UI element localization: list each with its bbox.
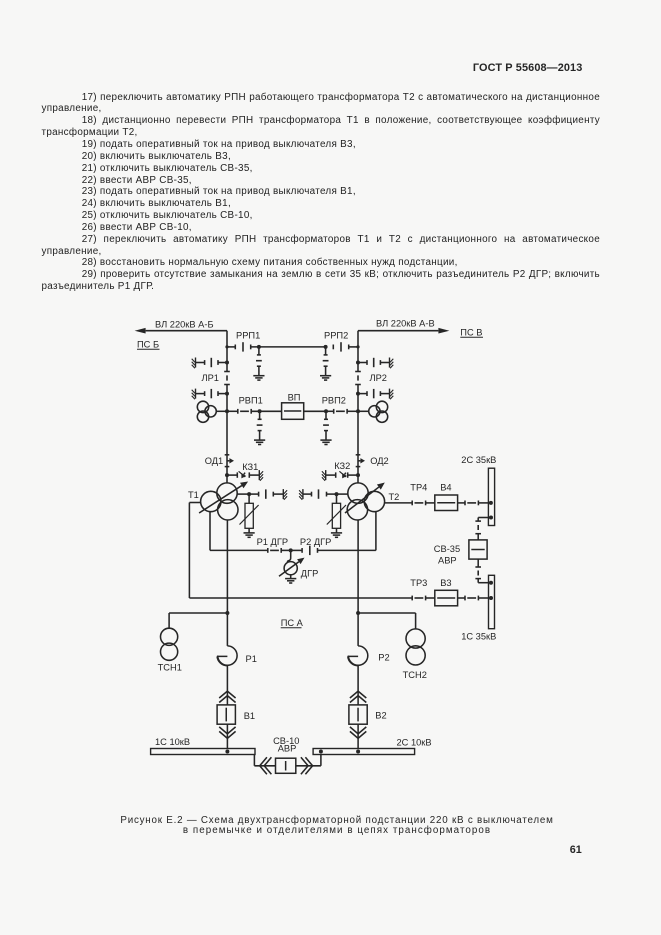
svg-text:ЛР1: ЛР1 — [202, 373, 219, 383]
label 1S 35kV — [461, 632, 496, 642]
label T1 — [188, 490, 199, 500]
svg-text:РВП2: РВП2 — [322, 395, 346, 405]
circuit breaker V3 (box) — [435, 590, 458, 606]
disconnector TR4 (closed) — [412, 501, 425, 506]
disconnector RRP2 — [333, 342, 348, 351]
label T2 — [389, 492, 400, 502]
svg-text:В1: В1 — [244, 711, 255, 721]
bus 2S 10kV (busbar) — [313, 749, 415, 755]
label SV-10 — [273, 736, 299, 746]
label LR1 — [202, 373, 219, 383]
sectionalizing breaker SV-35 (box) — [469, 540, 487, 559]
surge arrester at T1 neutral — [240, 494, 259, 537]
wire: OD2 to KZ2 node and T2 — [357, 467, 359, 483]
label KZ2 — [334, 461, 350, 471]
label AVR-35 — [438, 556, 457, 566]
disconnector R1 DGR (closed) — [268, 548, 281, 553]
transformer T1 (three-winding, on-load tap changer) — [199, 482, 248, 521]
withdrawable marks below V1 — [219, 727, 235, 738]
label AVR-10 — [278, 743, 297, 753]
label KZ1 — [242, 462, 258, 472]
withdrawable marks above V1 — [219, 691, 235, 702]
svg-text:ТР4: ТР4 — [410, 483, 427, 493]
sectionalizing breaker SV-10 (box) — [276, 758, 296, 773]
neutral earthing disconnector of T1 — [249, 489, 287, 500]
voltage transformer cluster right — [369, 401, 388, 422]
wire: jumper middle segment — [292, 346, 326, 348]
label V1 — [244, 711, 255, 721]
grounding switch above LR2 — [356, 358, 393, 369]
disconnector after V4 (closed) — [458, 501, 479, 506]
wire: RVP1 to VP box — [251, 410, 281, 412]
grounding switch at RVP2 — [320, 409, 331, 444]
disconnector above SV-35 — [475, 521, 481, 540]
label R1 DGR — [257, 537, 289, 547]
plug-in contact R2 — [348, 646, 368, 666]
wire: VP box to RVP2 — [304, 410, 326, 412]
wire: R2 to V2 — [357, 666, 359, 705]
svg-text:В2: В2 — [375, 710, 386, 720]
svg-text:ДГР: ДГР — [301, 569, 319, 579]
label TSN2 — [403, 670, 427, 680]
wire: T2 neutral lead — [335, 492, 349, 496]
circuit breaker V2 (box) — [349, 705, 367, 724]
disconnector LR2 on right bus — [355, 372, 361, 385]
disconnector after V3 (closed) — [458, 596, 479, 601]
svg-text:Р2: Р2 — [378, 653, 389, 663]
svg-text:ТСН1: ТСН1 — [158, 662, 182, 672]
wire: V2 to bus 2S 10kV — [357, 724, 359, 748]
label TR4 — [410, 483, 427, 493]
svg-text:ЛР2: ЛР2 — [370, 373, 387, 383]
disconnector RRP1 — [235, 342, 250, 351]
circuit breaker V4 (box) — [435, 495, 458, 511]
neutral earthing disconnector of T2 — [299, 489, 336, 500]
label OD1 — [205, 456, 224, 466]
svg-text:Т1: Т1 — [188, 490, 199, 500]
label TSN1 — [158, 662, 182, 672]
svg-text:ПС Б: ПС Б — [137, 340, 159, 350]
withdrawable marks above V2 — [350, 691, 366, 702]
label VL 220kV A-B — [155, 319, 214, 329]
svg-text:ОД1: ОД1 — [205, 456, 224, 466]
svg-text:Р1: Р1 — [246, 654, 257, 664]
svg-text:ВП: ВП — [288, 392, 301, 402]
label V3 — [440, 578, 451, 588]
bus 1S 35kV (busbar) — [489, 575, 495, 628]
wire: TR3 to breaker V3 — [426, 597, 435, 599]
grounding switch on RRP1 side — [253, 345, 264, 380]
wire: T2 10kV feeder down — [357, 520, 359, 646]
label PS B (underlined) — [137, 340, 160, 350]
surge arrester at T2 neutral — [327, 494, 346, 537]
label R1 — [246, 654, 257, 664]
node: TSN2 tap — [356, 611, 360, 615]
disconnector below SV-35 — [475, 559, 481, 583]
node: V2 on bus 2S 10kV — [356, 750, 360, 754]
label 1S 10kV — [155, 737, 190, 747]
label PS V (underlined) — [460, 327, 483, 337]
bus 1S 10kV (busbar) — [151, 749, 255, 755]
bus 2S 35kV (busbar) — [488, 468, 494, 525]
label LR2 — [370, 373, 387, 383]
wire: right bus RVP to OD2 — [357, 411, 359, 455]
withdrawable marks below V2 — [350, 727, 366, 738]
svg-text:1С 35кВ: 1С 35кВ — [461, 632, 496, 642]
circuit breaker V1 (box) — [217, 705, 235, 724]
svg-text:ВЛ 220кВ А-В: ВЛ 220кВ А-В — [376, 318, 435, 328]
grounding switch below LR1 — [192, 389, 229, 400]
wire: left 220kV bus from corner to LR1 — [226, 331, 228, 365]
svg-text:ПС А: ПС А — [281, 618, 304, 628]
node: riser on bus 2S 10kV — [319, 750, 323, 754]
svg-text:РРП2: РРП2 — [324, 330, 348, 340]
label VL 220kV A-V — [376, 318, 435, 328]
label RVP1 — [239, 395, 263, 405]
grounding switch below LR2 — [356, 389, 393, 400]
svg-text:Т2: Т2 — [389, 492, 400, 502]
wire: RRP1 to ground-switch node — [251, 346, 292, 348]
disconnector RVP2 (closed) — [326, 409, 347, 414]
wire: tap to TSN2 — [358, 613, 416, 629]
wire: 2S 35kV tap to SV-35 — [478, 516, 493, 522]
bypass circuit breaker VP (box) — [282, 403, 304, 420]
node: TSN1 tap — [225, 611, 229, 615]
svg-text:ПС В: ПС В — [460, 327, 482, 337]
short-circuiter KZ2 — [322, 470, 360, 481]
label SV-35 — [434, 544, 460, 554]
wire: T1 neutral lead — [237, 492, 251, 496]
label DGR — [301, 569, 319, 579]
wire: left bus LR1 gaps — [226, 365, 228, 411]
wire: right bus from corner through LR2 — [357, 331, 359, 412]
wire: T1 35kV winding to DGR row — [210, 511, 268, 550]
disconnector RVP1 (closed) — [227, 409, 251, 414]
wire: SV-10 to bus 2S 10kV riser — [296, 755, 321, 766]
label RRP2 — [324, 330, 348, 340]
svg-text:РРП1: РРП1 — [236, 330, 260, 340]
svg-text:Р2 ДГР: Р2 ДГР — [300, 537, 332, 547]
label RRP1 — [236, 330, 260, 340]
withdrawable marks left of SV-10 — [260, 757, 272, 774]
node: V1 on bus 1S 10kV — [225, 750, 229, 754]
disconnector TR3 (closed) — [412, 596, 425, 601]
auxiliary transformer TSN2 — [406, 629, 425, 665]
wire: SV-35 to bus 1S 35kV — [478, 581, 493, 585]
separator OD1 on left bus — [225, 455, 234, 467]
svg-text:АВР: АВР — [438, 556, 457, 566]
grounding switch on RRP2 side — [320, 345, 331, 380]
label RVP2 — [322, 395, 346, 405]
label V2 — [375, 710, 386, 720]
wire: T2 35kV lead to TR4 — [385, 502, 413, 504]
svg-text:КЗ2: КЗ2 — [334, 461, 350, 471]
wire: R2 DGR to T2 35kV winding — [318, 511, 376, 550]
wire: overhead line VL 220kV A-B with arrow to PS B — [135, 328, 227, 334]
label VP — [288, 392, 301, 402]
svg-text:ТСН2: ТСН2 — [403, 670, 427, 680]
withdrawable marks right of SV-10 — [301, 757, 313, 774]
label R2 — [378, 653, 389, 663]
wire: RRP jumper left segment — [225, 345, 235, 348]
svg-text:СВ-35: СВ-35 — [434, 544, 460, 554]
grounding switch above LR1 — [192, 358, 229, 369]
separator OD2 on right bus — [356, 455, 365, 467]
disconnector R2 DGR (open) — [302, 546, 317, 555]
label 2S 35kV — [461, 455, 496, 465]
label PS A (underlined) — [281, 618, 304, 628]
label TR3 — [410, 578, 427, 588]
grounding switch at RVP1 — [254, 409, 265, 444]
label R2 DGR — [300, 537, 332, 547]
wire: bus 1S 10kV drop to SV-10 — [254, 755, 275, 766]
svg-text:КЗ1: КЗ1 — [242, 462, 258, 472]
svg-text:В3: В3 — [440, 578, 451, 588]
svg-text:ОД2: ОД2 — [370, 456, 389, 466]
wire: T1 35kV long feeder to TR3 — [189, 503, 412, 599]
svg-text:Р1 ДГР: Р1 ДГР — [257, 537, 289, 547]
svg-text:2С 35кВ: 2С 35кВ — [461, 455, 496, 465]
wire: V1 to bus 1S 10kV — [226, 724, 228, 748]
voltage transformer cluster left — [197, 401, 229, 422]
auxiliary transformer TSN1 — [161, 628, 178, 660]
wire: to bus 1S 35kV — [478, 596, 493, 600]
wire: OD1 to KZ1 node and T1 — [226, 467, 228, 483]
wire: RRP2 to right bus — [349, 345, 360, 348]
wire: TR4 to breaker V4 — [426, 502, 435, 504]
wire: tap to TSN1 — [169, 613, 227, 628]
wire: RVP2 to right bus and VT — [347, 409, 369, 413]
plug-in contact R1 — [217, 646, 237, 666]
wire: to bus 2S 35kV — [478, 501, 493, 505]
label 2S 10kV — [397, 737, 432, 747]
disconnector LR1 on left bus — [224, 372, 230, 385]
svg-text:РВП1: РВП1 — [239, 395, 263, 405]
svg-text:ВЛ 220кВ А-Б: ВЛ 220кВ А-Б — [155, 319, 214, 329]
wire: T1 10kV feeder down — [226, 520, 228, 646]
wire: R1 to V1 — [226, 666, 228, 706]
wire: R1 DGR to DGR node — [281, 548, 302, 552]
label OD2 — [370, 456, 389, 466]
wire: overhead line VL 220kV A-V with arrow to PS V — [358, 328, 449, 334]
svg-text:АВР: АВР — [278, 743, 297, 753]
svg-text:ТР3: ТР3 — [410, 578, 427, 588]
arc suppression coil DGR — [279, 550, 305, 583]
short-circuiter KZ1 — [225, 470, 263, 481]
svg-text:2С 10кВ: 2С 10кВ — [397, 737, 432, 747]
label V4 — [440, 483, 451, 493]
svg-text:1С 10кВ: 1С 10кВ — [155, 737, 190, 747]
wire: left bus RVP to OD1 — [226, 411, 228, 455]
svg-text:В4: В4 — [440, 483, 451, 493]
transformer T2 (three-winding, on-load tap changer) — [345, 483, 385, 521]
